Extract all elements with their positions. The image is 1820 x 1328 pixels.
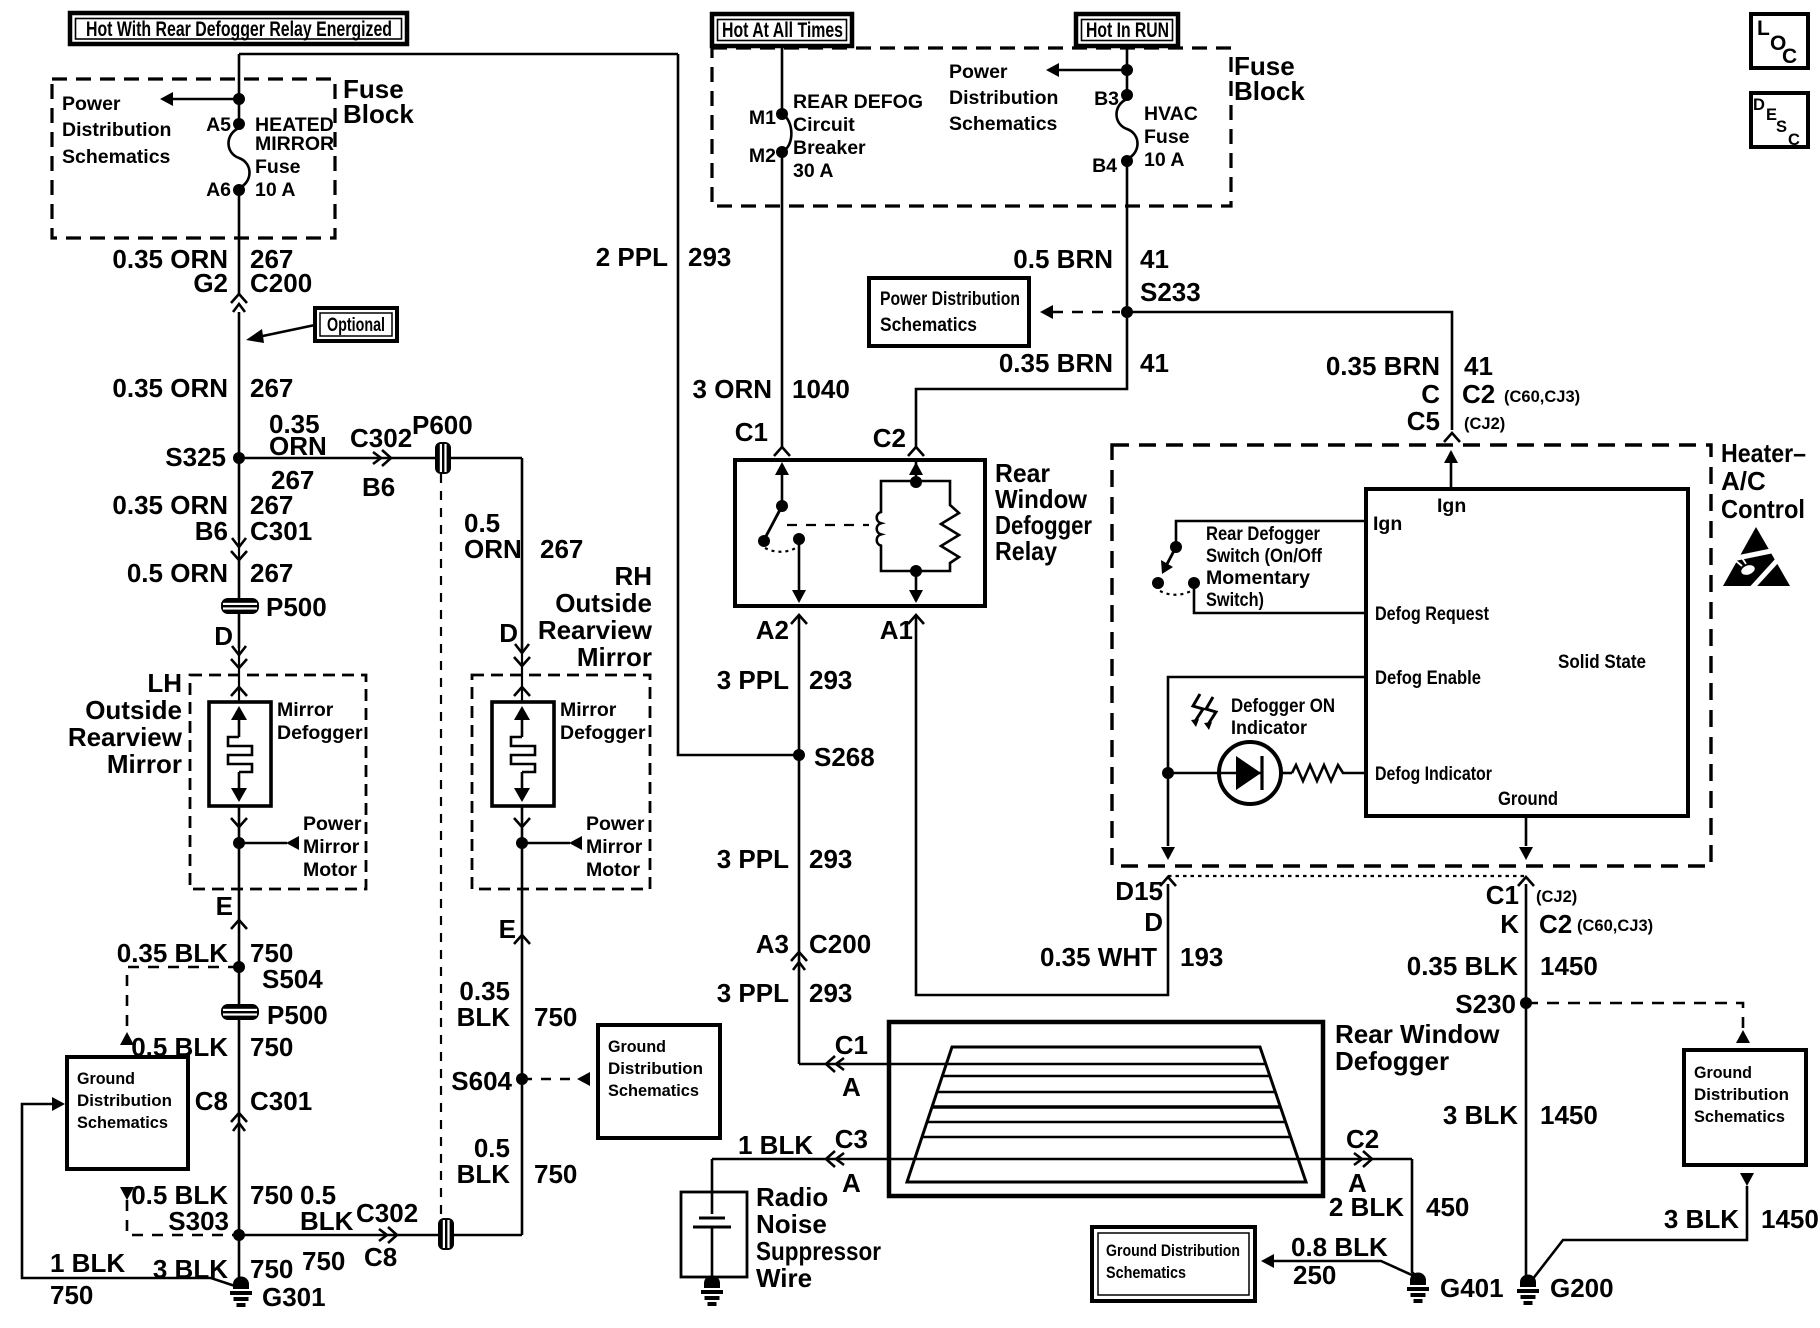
wire 0.35 ORN 267 (S325 to C301) (112, 490, 293, 520)
wire 2 BLK 450 (defogger C2 to G401) (1329, 1159, 1470, 1278)
svg-text:C8: C8 (364, 1242, 397, 1272)
connector P600 (412, 410, 473, 474)
radio noise suppressor C4 (681, 1159, 881, 1293)
svg-text:C301: C301 (250, 516, 312, 546)
svg-text:3 PPL: 3 PPL (717, 665, 789, 695)
svg-text:Optional: Optional (327, 314, 385, 336)
svg-text:B6: B6 (362, 472, 395, 502)
svg-text:Rear Window: Rear Window (1335, 1019, 1500, 1049)
svg-text:0.35 WHT: 0.35 WHT (1040, 942, 1157, 972)
svg-text:Heater–: Heater– (1721, 438, 1806, 468)
svg-text:Outside: Outside (555, 588, 652, 618)
fuse block (left) dashed outline (52, 79, 335, 238)
svg-text:Momentary: Momentary (1206, 567, 1310, 589)
svg-text:Distribution: Distribution (62, 119, 171, 141)
svg-text:Defogger ON: Defogger ON (1231, 695, 1335, 717)
svg-text:750: 750 (534, 1002, 577, 1032)
svg-text:A/C: A/C (1721, 466, 1766, 496)
wire 3 PPL 293 (C200 to defogger C1) (717, 978, 853, 1008)
resistor R2 (LED series) (1292, 765, 1366, 781)
svg-text:Control: Control (1721, 494, 1805, 524)
wire 0.5 ORN 267 (P600 to RH mirror) (464, 458, 583, 650)
label Power Distribution Schematics (left fuse block) (62, 93, 171, 168)
svg-text:Mirror: Mirror (303, 836, 360, 858)
wire RH pin E (499, 843, 530, 1235)
relay coil wire from C2 (909, 460, 923, 488)
svg-text:C: C (1421, 379, 1440, 409)
svg-text:C1: C1 (835, 1030, 868, 1060)
relay U1: Rear Window Defogger Relay box (735, 458, 1092, 606)
svg-text:P500: P500 (266, 592, 327, 622)
svg-text:Hot At All Times: Hot At All Times (722, 19, 843, 42)
svg-text:Power Distribution: Power Distribution (880, 288, 1020, 310)
splice S230 (1455, 989, 1532, 1019)
svg-text:0.35 BLK: 0.35 BLK (1407, 951, 1518, 981)
wire 0.5 BLK 750 (C301 to S303) (131, 1180, 293, 1210)
pin A5 (206, 114, 245, 136)
svg-text:A: A (842, 1168, 861, 1198)
ESD sensitivity symbol (1723, 527, 1790, 588)
connector A1 (880, 615, 924, 645)
svg-text:Motor: Motor (586, 859, 641, 881)
svg-text:Rearview: Rearview (68, 722, 183, 752)
svg-text:C302: C302 (350, 423, 412, 453)
defogger grid element (907, 1047, 1306, 1182)
svg-text:C: C (1788, 131, 1800, 149)
svg-text:750: 750 (250, 1254, 293, 1284)
reference box Ground Distribution Schematics (bottom) (1092, 1227, 1255, 1301)
relay coil L1 and resistor R1 in parallel (877, 481, 959, 603)
svg-text:Solid State: Solid State (1558, 651, 1646, 673)
wire 3 BLK 750 (S303 to G301) (153, 1254, 294, 1284)
relay switch contact (758, 462, 805, 552)
header box: Hot At All Times (712, 14, 852, 46)
svg-text:0.35 BLK: 0.35 BLK (117, 938, 228, 968)
svg-text:2 PPL: 2 PPL (596, 242, 668, 272)
svg-text:3 BLK: 3 BLK (1443, 1100, 1518, 1130)
svg-text:Outside: Outside (85, 695, 182, 725)
connector D15 D (1115, 876, 1176, 937)
pin A6 (206, 179, 245, 201)
connector P600 (lower) (438, 1218, 454, 1250)
svg-text:293: 293 (809, 844, 852, 874)
wire 0.35 BLK 750 (LH E to S504) (117, 938, 294, 968)
svg-text:P500: P500 (267, 1000, 328, 1030)
svg-text:C200: C200 (809, 929, 871, 959)
svg-text:Hot With Rear Defogger Relay E: Hot With Rear Defogger Relay Energized (86, 18, 392, 41)
svg-text:0.5 BRN: 0.5 BRN (1013, 244, 1113, 274)
svg-text:BLK: BLK (300, 1206, 354, 1236)
pin B4 (1092, 155, 1133, 177)
svg-text:Defogger: Defogger (1335, 1046, 1449, 1076)
svg-text:MIRROR: MIRROR (255, 133, 334, 155)
flash marks on indicator (1191, 694, 1216, 730)
svg-text:C8: C8 (195, 1086, 228, 1116)
label RH Outside Rearview Mirror (538, 561, 653, 672)
svg-text:Switch (On/Off: Switch (On/Off (1206, 545, 1322, 567)
circuit breaker REAR DEFOG 30 A (782, 91, 923, 182)
svg-text:REAR DEFOG: REAR DEFOG (793, 91, 923, 113)
svg-text:B3: B3 (1094, 88, 1119, 110)
wire 0.35 BRN 41 (S233 to relay C2) (916, 312, 1169, 448)
svg-text:D: D (1753, 96, 1765, 114)
svg-text:(CJ2): (CJ2) (1536, 888, 1577, 906)
connector G2 C200 (193, 268, 312, 312)
svg-text:Rear Defogger: Rear Defogger (1206, 523, 1320, 545)
svg-text:Block: Block (1234, 76, 1305, 106)
svg-text:450: 450 (1426, 1192, 1469, 1222)
wire 0.5 ORN 267 (C301 to P500) (127, 558, 294, 598)
svg-text:D: D (214, 621, 233, 651)
svg-text:C2: C2 (873, 423, 906, 453)
svg-text:Schematics: Schematics (949, 113, 1058, 135)
svg-text:Mirror: Mirror (577, 642, 652, 672)
svg-text:P600: P600 (412, 410, 473, 440)
svg-text:A: A (842, 1072, 861, 1102)
svg-text:750: 750 (250, 1032, 293, 1062)
wire 0.35 ORN 267 (C200 to S325) (112, 312, 293, 540)
svg-text:293: 293 (809, 665, 852, 695)
svg-text:Suppressor: Suppressor (756, 1236, 881, 1266)
wire 0.35 BLK 750 (RH E to S604) (457, 976, 578, 1032)
connector A3 C200 (756, 929, 871, 970)
svg-text:C: C (1782, 45, 1797, 68)
reference box Ground Distribution Schematics (left) (67, 1057, 188, 1169)
splice S504 (233, 961, 323, 994)
connector C C2 (C60,CJ3) (1421, 379, 1580, 409)
svg-text:Schematics: Schematics (1106, 1264, 1186, 1282)
reference box Ground Distribution Schematics (right) (1684, 1050, 1806, 1165)
splice S303 (168, 1206, 245, 1241)
svg-text:Breaker: Breaker (793, 137, 866, 159)
pin M1 (749, 107, 788, 129)
pin M2 (749, 145, 788, 167)
wire 3 ORN 1040 (M2 to relay C1) (693, 152, 850, 448)
svg-text:Switch): Switch) (1206, 589, 1264, 611)
svg-text:S268: S268 (814, 742, 875, 772)
svg-text:Power: Power (62, 93, 121, 115)
svg-text:C2: C2 (1462, 379, 1495, 409)
svg-text:Defogger: Defogger (560, 722, 646, 744)
svg-text:41: 41 (1464, 351, 1493, 381)
svg-text:41: 41 (1140, 244, 1169, 274)
svg-text:3 BLK: 3 BLK (1664, 1204, 1739, 1234)
svg-text:Mirror: Mirror (560, 699, 617, 721)
svg-text:(C60,CJ3): (C60,CJ3) (1577, 917, 1653, 935)
svg-text:0.35 BRN: 0.35 BRN (999, 348, 1113, 378)
pin B3 (1094, 88, 1133, 110)
fuse HVAC Fuse 10 A (1117, 95, 1198, 171)
svg-text:2 BLK: 2 BLK (1329, 1192, 1404, 1222)
dashed connector linkage P600 to C302 (440, 474, 442, 1216)
svg-text:1 BLK: 1 BLK (50, 1248, 125, 1278)
svg-text:Distribution: Distribution (608, 1060, 703, 1078)
label Fuse Block (left) (343, 74, 414, 129)
svg-text:ORN: ORN (269, 431, 327, 461)
corner tag LOC (1751, 14, 1808, 68)
svg-text:0.8 BLK: 0.8 BLK (1291, 1232, 1388, 1262)
wire 0.5 BLK 750 (P500 to C301) (131, 1032, 293, 1062)
svg-text:D15: D15 (1115, 876, 1163, 906)
svg-text:Power: Power (949, 61, 1008, 83)
relay switch output to A2 (792, 539, 806, 603)
svg-text:ORN: ORN (464, 534, 522, 564)
svg-text:Block: Block (343, 99, 414, 129)
svg-text:HVAC: HVAC (1144, 103, 1198, 125)
LED D1: Defogger ON Indicator (1168, 742, 1292, 804)
wire 0.35 BLK 1450 (heater C1 to S230) (1407, 884, 1598, 1280)
ground G301 (230, 1277, 326, 1313)
connector RH pin D (499, 618, 530, 702)
svg-text:RH: RH (614, 561, 652, 591)
svg-text:D: D (499, 618, 518, 648)
relay actuation dashed link (787, 524, 869, 526)
wire from Hot At All Times to M1 (781, 46, 784, 114)
label Defogger ON Indicator (1231, 695, 1335, 739)
label Rear Defogger Switch (On/Off Momentary Switch) (1206, 523, 1322, 611)
wire Defog Enable to D15 (1161, 677, 1366, 860)
connector C2 (relay) (873, 423, 924, 456)
connector B6 C301 (195, 516, 312, 560)
connector C8 C301 (lower) (195, 1086, 312, 1131)
LH mirror defogger element (209, 699, 363, 806)
svg-text:BLK: BLK (457, 1159, 511, 1189)
connector P500 (lower) (221, 967, 328, 1284)
svg-text:267: 267 (250, 373, 293, 403)
svg-text:BLK: BLK (457, 1002, 511, 1032)
svg-text:1450: 1450 (1540, 951, 1598, 981)
wire: arrow to Power Distribution Schematics (left) (160, 92, 245, 106)
svg-text:Fuse: Fuse (1144, 126, 1190, 148)
svg-text:C5: C5 (1407, 406, 1440, 436)
wire 0.35 ORN 267 branch to C302/P600 (239, 409, 522, 502)
svg-text:Ign: Ign (1437, 495, 1466, 517)
LH power mirror motor stub (231, 806, 362, 881)
svg-text:(C60,CJ3): (C60,CJ3) (1504, 388, 1580, 406)
label Heater-A/C Control (1721, 438, 1806, 524)
svg-text:M2: M2 (749, 145, 776, 167)
svg-text:M1: M1 (749, 107, 776, 129)
svg-text:Motor: Motor (303, 859, 358, 881)
svg-text:G200: G200 (1550, 1273, 1614, 1303)
Heater-A/C Control dashed module box (1112, 445, 1711, 866)
svg-text:250: 250 (1293, 1260, 1336, 1290)
svg-text:Schematics: Schematics (1694, 1108, 1785, 1126)
wire 0.8 BLK 250 (G401 to ground dist bottom) (1261, 1232, 1414, 1290)
wire LH pin E (216, 843, 247, 967)
svg-text:10 A: 10 A (255, 179, 295, 201)
svg-text:750: 750 (250, 1180, 293, 1210)
splice S268 (793, 742, 875, 772)
svg-text:A1: A1 (880, 615, 913, 645)
svg-text:(CJ2): (CJ2) (1464, 415, 1505, 433)
svg-text:267: 267 (540, 534, 583, 564)
wire Ign into module (from C5) (1437, 450, 1466, 517)
connector C302 C8 (356, 1198, 418, 1272)
svg-text:B6: B6 (195, 516, 228, 546)
wire arrow to Power Distribution Schematics (middle) (1046, 63, 1133, 77)
svg-text:Mirror: Mirror (586, 836, 643, 858)
svg-text:S504: S504 (262, 964, 323, 994)
svg-text:A2: A2 (756, 615, 789, 645)
svg-text:1040: 1040 (792, 374, 850, 404)
svg-text:Distribution: Distribution (1694, 1086, 1789, 1104)
svg-text:0.35 BRN: 0.35 BRN (1326, 351, 1440, 381)
svg-text:Noise: Noise (756, 1209, 827, 1239)
svg-text:Defog Request: Defog Request (1375, 603, 1489, 625)
svg-text:S325: S325 (165, 442, 226, 472)
wire 3 PPL 293 (S268 to C200) (717, 844, 853, 874)
wire 2 PPL 293 (to S268) (596, 54, 799, 755)
connector C1 (relay) (735, 417, 790, 456)
svg-text:3 PPL: 3 PPL (717, 844, 789, 874)
wire 1 BLK 750 (ground dist to G301) (22, 1097, 238, 1310)
wire A1 to D15 link (916, 617, 1223, 995)
dashed wire from S233 to Power Distribution Schematics (1040, 305, 1120, 319)
svg-text:E: E (216, 891, 233, 921)
svg-text:C302: C302 (356, 1198, 418, 1228)
dashed wire Ground Distribution (left) to S303 (120, 1187, 233, 1235)
wire from Hot In RUN to B3 (1126, 46, 1129, 95)
svg-text:267: 267 (250, 558, 293, 588)
svg-text:750: 750 (534, 1159, 577, 1189)
svg-text:41: 41 (1140, 348, 1169, 378)
splice S325 (165, 442, 245, 472)
wire 0.5 BLK 750 (S303 to C302) (239, 1180, 522, 1276)
svg-text:Schematics: Schematics (608, 1082, 699, 1100)
svg-text:Mirror: Mirror (107, 749, 182, 779)
svg-text:S230: S230 (1455, 989, 1516, 1019)
ground (suppressor) (701, 1276, 723, 1307)
svg-text:S: S (1776, 118, 1787, 136)
svg-text:Rearview: Rearview (538, 615, 653, 645)
svg-text:Schematics: Schematics (62, 146, 171, 168)
dashed wire S504 to Ground Distribution Schematics (left) (120, 967, 239, 1045)
wire 3 BLK 1450 (ground dist right to G200) (1532, 1173, 1819, 1280)
svg-text:Defog Indicator: Defog Indicator (1375, 763, 1492, 785)
switch S1: Rear Defogger Switch (1152, 521, 1366, 613)
svg-text:Ground: Ground (1498, 788, 1558, 810)
svg-text:Ground Distribution: Ground Distribution (1106, 1242, 1240, 1260)
fuse HEATED MIRROR Fuse 10 A (229, 114, 335, 201)
fuse block (middle) dashed outline (712, 48, 1231, 206)
svg-text:Wire: Wire (756, 1263, 812, 1293)
svg-text:Hot In RUN: Hot In RUN (1086, 19, 1169, 42)
svg-text:30 A: 30 A (793, 160, 833, 182)
svg-text:Power: Power (586, 813, 645, 835)
label Power Distribution Schematics (middle fuse block) (949, 61, 1058, 135)
splice S233 (1121, 277, 1201, 318)
svg-text:L: L (1757, 17, 1770, 40)
connector edge dotted line (1168, 875, 1528, 877)
svg-text:Mirror: Mirror (277, 699, 334, 721)
svg-text:D: D (1144, 907, 1163, 937)
svg-text:LH: LH (147, 668, 182, 698)
connector C1 (CJ2) / K C2 (C60,CJ3) (1486, 877, 1653, 939)
connector A2 (756, 615, 807, 645)
header box: Hot In RUN (1076, 14, 1178, 46)
svg-text:E: E (499, 914, 516, 944)
svg-text:Relay: Relay (995, 536, 1057, 566)
svg-text:G301: G301 (262, 1282, 326, 1312)
callout box Optional (246, 308, 397, 343)
svg-text:G401: G401 (1440, 1273, 1504, 1303)
svg-text:A6: A6 (206, 179, 231, 201)
RH Outside Rearview Mirror dashed box (472, 675, 650, 889)
wire 0.35 ORN 267 (fuse to C200) (112, 190, 293, 294)
svg-text:293: 293 (809, 978, 852, 1008)
header box: Hot With Rear Defogger Relay Energized (70, 13, 407, 44)
reference box Power Distribution Schematics (center) (869, 278, 1029, 346)
connector C2 (defogger right) (1346, 1124, 1379, 1198)
svg-text:A3: A3 (756, 929, 789, 959)
wire 0.5 BLK 750 (S604 down) (457, 1133, 578, 1189)
dashed wire S230 to Ground Distribution (right) (1526, 1003, 1750, 1043)
svg-text:0.5 ORN: 0.5 ORN (127, 558, 228, 588)
wire: left vertical trunk x=239 (238, 54, 241, 122)
reference box Ground Distribution Schematics (mid) (598, 1025, 720, 1138)
LH Outside Rearview Mirror dashed box (190, 675, 366, 889)
svg-text:Ign: Ign (1373, 513, 1402, 535)
RH mirror defogger element (492, 699, 646, 806)
wire 1 BLK / C3 (defogger to suppressor) (712, 1124, 1412, 1198)
svg-text:3 ORN: 3 ORN (693, 374, 772, 404)
svg-text:1450: 1450 (1540, 1100, 1598, 1130)
svg-text:193: 193 (1180, 942, 1223, 972)
svg-text:Defogger: Defogger (277, 722, 363, 744)
svg-text:Distribution: Distribution (949, 87, 1058, 109)
solid state module U2 (1366, 489, 1688, 816)
svg-text:Indicator: Indicator (1231, 717, 1307, 739)
svg-text:S233: S233 (1140, 277, 1201, 307)
wire Ground to C1 (1519, 816, 1533, 860)
connector P500 (221, 592, 327, 622)
svg-text:Fuse: Fuse (255, 156, 301, 178)
svg-text:C301: C301 (250, 1086, 312, 1116)
svg-text:Distribution: Distribution (77, 1092, 172, 1110)
svg-text:C1: C1 (735, 417, 768, 447)
dashed wire S604 to Ground Distribution (mid) (522, 1072, 590, 1086)
svg-text:C2: C2 (1346, 1124, 1379, 1154)
splice S604 (451, 1066, 528, 1096)
svg-text:10 A: 10 A (1144, 149, 1184, 171)
svg-text:B4: B4 (1092, 155, 1117, 177)
svg-text:C1: C1 (1486, 880, 1519, 910)
wire 0.5 BRN 41 (B4 to S233) (1013, 161, 1169, 312)
wire into LH mirror pin D (214, 614, 247, 702)
ground G401 (1407, 1273, 1504, 1304)
svg-text:C3: C3 (835, 1124, 868, 1154)
svg-text:3 PPL: 3 PPL (717, 978, 789, 1008)
RH power mirror motor stub (514, 806, 645, 881)
svg-text:750: 750 (302, 1246, 345, 1276)
svg-text:Defog Enable: Defog Enable (1375, 667, 1481, 689)
wire 3 PPL 293 (A2 to S268) (717, 617, 853, 1064)
svg-text:Ground: Ground (608, 1038, 666, 1056)
ground G200 (1517, 1273, 1614, 1305)
svg-text:Radio: Radio (756, 1182, 828, 1212)
connector C5 (CJ2) (1407, 406, 1506, 442)
svg-text:Schematics: Schematics (880, 314, 977, 336)
svg-text:C2: C2 (1539, 909, 1572, 939)
svg-text:Ground: Ground (1694, 1064, 1752, 1082)
svg-text:1450: 1450 (1761, 1204, 1819, 1234)
svg-text:Power: Power (303, 813, 362, 835)
svg-text:Ground: Ground (77, 1070, 135, 1088)
svg-text:S303: S303 (168, 1206, 229, 1236)
corner tag DESC (1751, 93, 1808, 149)
wire: hot feed top horizontal to 2 PPL drop (239, 53, 678, 56)
